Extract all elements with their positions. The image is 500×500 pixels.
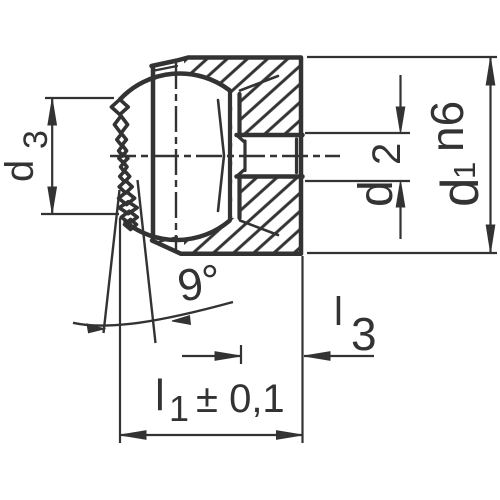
housing front rim [151,66,156,241]
seat ledge edge upper [240,76,278,91]
label d3 [0,130,55,182]
svg-text:3: 3 [17,130,55,149]
d3 arrow top [48,99,57,125]
9deg dimension arc [73,302,233,326]
seat wall A [228,91,232,220]
seat wall B lower [237,176,241,218]
svg-text:± 0,1: ± 0,1 [196,377,285,421]
svg-text:1: 1 [447,162,482,179]
ball lower arc [126,221,230,240]
d3 dimension line [51,99,53,213]
svg-text:1: 1 [169,388,189,429]
svg-text:l: l [334,290,343,334]
d3 extension line bottom [41,213,119,215]
hole d2 top edge [237,135,303,142]
l3 dimension line outer [304,355,374,357]
label l1 tolerance [155,371,285,429]
d1 arrow bottom [486,225,495,252]
d1 extension line top [307,56,497,58]
l3 extension line (hole bottom) [240,345,242,364]
housing section hatching [98,56,304,255]
d3 arrow bottom [48,187,57,213]
l3 arrow outer [304,352,330,361]
d3 extension line top [45,97,114,99]
l1 dimension line [120,434,303,436]
svg-text:d: d [431,178,490,207]
hole bottom face [243,141,246,171]
l3 arrow inner [215,352,241,361]
collar inner edge bottom [155,237,177,243]
svg-text:9°: 9° [174,254,225,312]
d1 extension line bottom [307,252,497,254]
svg-text:3: 3 [351,308,377,360]
d1 arrow top [486,58,495,85]
9deg cone extension line right [138,180,156,343]
label d2 [350,143,409,207]
l3 extension line (housing face) [301,256,303,443]
svg-text:d: d [350,180,403,207]
d2 extension line top [305,132,410,134]
hole d2 bottom edge [237,170,303,177]
hole mouth chamfer [295,139,298,173]
horizontal centerline [110,155,340,157]
svg-text:d: d [0,160,42,182]
d2 dimension line upper [399,75,401,107]
label l3 [334,290,377,360]
l3 dimension line inner [182,355,241,357]
ball upper arc [120,74,229,100]
seat ledge edge lower [240,221,278,236]
spring serration chain on ball front [111,99,137,229]
l1 extension line left [119,218,121,443]
d2 extension line bottom [305,180,410,182]
d2 dimension line lower [399,207,401,239]
svg-text:2: 2 [365,143,409,165]
svg-text:n6: n6 [421,101,473,152]
l1 arrow right [277,431,303,440]
vertical centerline [175,63,177,252]
collar inner edge top [155,66,178,71]
9deg arrow left [87,324,105,333]
d2 arrow lower [396,181,405,207]
d1 dimension line [489,58,491,252]
d2 arrow upper [396,107,405,133]
9deg arrow right [172,316,191,325]
seat cone edge [218,100,224,211]
9deg cone extension line left [104,190,120,333]
seat wall B upper [237,94,241,136]
svg-text:l: l [155,371,165,420]
l1 arrow left [120,431,146,440]
housing outline [152,58,302,254]
label d1 n6 [421,101,490,207]
